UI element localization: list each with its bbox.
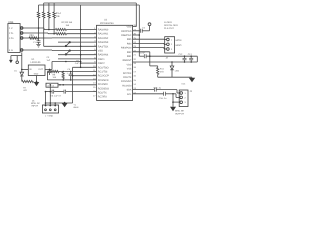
svg-text:1uF: 1uF bbox=[47, 59, 51, 62]
svg-text:RC6/TX: RC6/TX bbox=[98, 92, 107, 95]
svg-text:18: 18 bbox=[133, 66, 136, 69]
svg-text:RC7/RX: RC7/RX bbox=[98, 96, 108, 99]
pin label left RC1/TSI bbox=[98, 71, 108, 74]
wire bottom gnd rail bbox=[45, 102, 73, 104]
label C8 bbox=[75, 60, 80, 66]
pin number right 24 bbox=[133, 41, 136, 44]
svg-text:OSC1: OSC1 bbox=[98, 58, 105, 61]
pin number right 15 bbox=[133, 79, 136, 82]
capacitor C9 bbox=[67, 68, 73, 81]
label C14 bbox=[182, 83, 187, 86]
svg-text:10k: 10k bbox=[56, 15, 61, 18]
svg-text:J3: J3 bbox=[190, 90, 193, 93]
ground regulator bbox=[34, 81, 40, 87]
wire row3 bbox=[58, 41, 97, 43]
resistor R6 bbox=[56, 33, 97, 35]
ground crystal bbox=[62, 102, 68, 107]
wire +5V top rail A bbox=[44, 3, 137, 27]
pin number left 17 bbox=[93, 94, 96, 97]
svg-text:2: 2 bbox=[171, 43, 173, 46]
wire D+ to row2 bbox=[23, 37, 29, 39]
wire J5 pin1 riser bbox=[45, 91, 47, 105]
svg-text:SCL: SCL bbox=[127, 93, 132, 96]
svg-text:OUT: OUT bbox=[38, 68, 43, 71]
svg-text:3 D+: 3 D+ bbox=[9, 37, 15, 40]
svg-text:RA1/AN1: RA1/AN1 bbox=[98, 33, 109, 36]
wire +5V top rail B bbox=[39, 5, 140, 56]
svg-text:RC1/TSI: RC1/TSI bbox=[98, 71, 108, 74]
pin number left 12 bbox=[93, 73, 96, 76]
svg-text:CLK-OUT: CLK-OUT bbox=[164, 27, 175, 30]
pin label left RA0/AN0 bbox=[98, 29, 109, 32]
pin label right SCL bbox=[127, 93, 132, 96]
wire row3R to J2 pin1 bbox=[133, 38, 167, 40]
pin number right 13 bbox=[133, 87, 136, 90]
svg-text:C6 .1uF C7: C6 .1uF C7 bbox=[51, 94, 62, 97]
svg-text:C12: C12 bbox=[179, 53, 184, 56]
pin label right RC4/SDI bbox=[122, 84, 131, 87]
svg-text:RB1: RB1 bbox=[127, 55, 132, 58]
ground shield bbox=[9, 56, 13, 64]
pin number left 3 bbox=[94, 36, 96, 39]
svg-text:RC7/RX: RC7/RX bbox=[123, 72, 132, 75]
pin label left RC3/SCK bbox=[98, 79, 109, 82]
svg-text:RB0/INT: RB0/INT bbox=[123, 59, 132, 62]
svg-text:470: 470 bbox=[160, 71, 165, 74]
pin label right RB2 bbox=[127, 51, 132, 54]
svg-text:1: 1 bbox=[185, 92, 187, 95]
wire row4R to J2 pin2 bbox=[133, 42, 167, 45]
svg-text:L4931-50: L4931-50 bbox=[31, 61, 42, 64]
wire FB1 to IC bbox=[38, 37, 97, 39]
connector J3 bbox=[179, 90, 188, 107]
ground right bbox=[189, 78, 195, 82]
capacitor C13 bbox=[189, 55, 193, 62]
pin number left 6 bbox=[94, 48, 96, 51]
LED D3 bbox=[170, 61, 179, 77]
wire J5 pin3 riser bbox=[54, 102, 56, 105]
pin label left RA4/TCK bbox=[98, 45, 109, 48]
wire row16R bbox=[133, 93, 164, 95]
pin label right VSS bbox=[127, 68, 132, 71]
svg-text:1k5: 1k5 bbox=[66, 24, 70, 27]
pin number right 23 bbox=[133, 45, 136, 48]
svg-text:SDA: SDA bbox=[127, 89, 132, 92]
pin number right 18 bbox=[133, 66, 136, 69]
pin label left RC5/SDO bbox=[98, 87, 109, 90]
wire row15 caps bbox=[46, 90, 97, 94]
wire row11 bbox=[72, 75, 97, 77]
svg-text:19: 19 bbox=[133, 62, 136, 65]
svg-text:1 V: 1 V bbox=[9, 27, 13, 30]
pin number right 14 bbox=[133, 83, 136, 86]
wire row13 crystal bbox=[50, 84, 96, 86]
svg-text:RA5/AN4: RA5/AN4 bbox=[98, 54, 109, 57]
pin number left 5 bbox=[94, 44, 96, 47]
svg-text:RB2: RB2 bbox=[127, 51, 132, 54]
wire row6R to +5 node bbox=[133, 51, 150, 53]
svg-text:J2: J2 bbox=[166, 57, 169, 60]
svg-text:RC2/CCP: RC2/CCP bbox=[98, 75, 109, 78]
J2 pin 1 bbox=[167, 38, 173, 41]
J3 pin 3 bbox=[180, 101, 187, 104]
pin label left RC7/RX bbox=[98, 96, 108, 99]
wire row2R stub bbox=[133, 34, 141, 36]
svg-text:C4: C4 bbox=[142, 26, 146, 29]
pin label right RB1 bbox=[127, 55, 132, 58]
svg-text:PIC16F876A: PIC16F876A bbox=[100, 22, 114, 25]
svg-text:14: 14 bbox=[93, 82, 96, 85]
svg-text:C8: C8 bbox=[76, 60, 80, 63]
svg-text:C1: C1 bbox=[33, 41, 36, 44]
pin number right 26 bbox=[133, 33, 136, 36]
wire +5V W1 bbox=[139, 55, 197, 57]
svg-text:U1: U1 bbox=[32, 58, 36, 61]
connector J2 bbox=[165, 37, 175, 53]
pin number right 20 bbox=[133, 58, 136, 61]
pin label left RA1/AN1 bbox=[98, 33, 109, 36]
IC U2 PIC16F876A bbox=[97, 19, 133, 101]
svg-text:VDD: VDD bbox=[127, 63, 132, 66]
pin number right 25 bbox=[133, 37, 136, 40]
svg-text:IN: IN bbox=[29, 68, 32, 71]
pin number right 19 bbox=[133, 62, 136, 65]
wire row10 bbox=[47, 72, 49, 80]
pin number right 27 bbox=[133, 28, 136, 31]
pin 1 VBUS bbox=[9, 27, 23, 30]
pin label left OSC1 bbox=[98, 58, 105, 61]
J3 pin 1 bbox=[180, 92, 187, 95]
wire row5 GND rail bbox=[23, 49, 96, 52]
svg-text:J4-SER: J4-SER bbox=[164, 21, 172, 24]
svg-text:20: 20 bbox=[133, 58, 136, 61]
svg-text:R8: R8 bbox=[53, 73, 57, 76]
svg-text:RB7/PGD: RB7/PGD bbox=[121, 30, 131, 33]
svg-text:.1uF: .1uF bbox=[75, 62, 80, 65]
svg-text:MISO: MISO bbox=[176, 44, 182, 47]
resistor R11 bbox=[157, 66, 165, 77]
svg-text:USB: USB bbox=[8, 21, 14, 24]
pin number left 2 bbox=[94, 31, 96, 34]
pin label left VSS bbox=[98, 50, 103, 53]
resistor R1 bbox=[37, 5, 39, 38]
resistor R4 bbox=[53, 3, 55, 34]
pin label left RC4/SDI bbox=[98, 83, 108, 86]
J2 pin 3 bbox=[167, 48, 173, 51]
resistor R5 bbox=[56, 28, 97, 30]
label J3 bbox=[175, 90, 193, 115]
svg-text:D1: D1 bbox=[14, 69, 17, 72]
wire row8 left bbox=[80, 62, 97, 64]
svg-text:3: 3 bbox=[185, 101, 187, 104]
capacitor C15 inline bbox=[154, 87, 162, 92]
svg-text:17: 17 bbox=[133, 70, 136, 73]
wire row15R b bbox=[156, 90, 180, 93]
wire row4 bbox=[44, 45, 97, 47]
pin label right RB7/PGD bbox=[121, 30, 131, 33]
label C6 C7 bbox=[51, 94, 62, 97]
wire row9 jog bbox=[73, 67, 97, 69]
pin label right RB5 bbox=[127, 38, 132, 41]
pin number right 22 bbox=[133, 49, 136, 52]
pin number right 28 bbox=[133, 24, 136, 27]
resistor R8 bbox=[50, 70, 97, 79]
svg-text:R2,R3 1k5: R2,R3 1k5 bbox=[62, 21, 73, 24]
J2 pin 2 bbox=[167, 43, 173, 46]
wire W4 to ground bbox=[158, 76, 192, 79]
pin label right RC5/SDO bbox=[121, 80, 131, 83]
pin label right VDD bbox=[127, 26, 132, 29]
pin label left RC0/TSO bbox=[98, 66, 109, 69]
label J5 bbox=[31, 100, 40, 108]
label C13 bbox=[188, 53, 193, 56]
svg-text:VDD: VDD bbox=[127, 26, 132, 29]
svg-text:1: 1 bbox=[171, 38, 173, 41]
svg-text:ATNL SE: ATNL SE bbox=[175, 110, 184, 113]
svg-text:16: 16 bbox=[133, 75, 136, 78]
switch S2 bbox=[65, 50, 70, 55]
pin label right RB6/PGC bbox=[121, 34, 131, 37]
pin number right 12 bbox=[133, 91, 136, 94]
capacitor C12 bbox=[183, 55, 187, 62]
svg-text:21: 21 bbox=[133, 54, 136, 57]
wire shield rail bbox=[11, 55, 22, 57]
capacitor C3 out bbox=[47, 56, 52, 75]
wire row5R to J2 pin3 bbox=[133, 48, 167, 49]
ground J3 bbox=[170, 101, 176, 111]
pin label left RC6/TX bbox=[98, 92, 107, 95]
label R7 value bbox=[23, 86, 27, 92]
connector J1 USB bbox=[8, 21, 20, 53]
ground under C1 bbox=[36, 44, 40, 47]
connector J5 DC jack bbox=[42, 105, 58, 118]
resistor R2 bbox=[43, 3, 45, 46]
wire row8R W2 bbox=[133, 61, 198, 63]
resistor R7 bbox=[22, 80, 34, 82]
pin label left OSC2 bbox=[98, 62, 105, 65]
label C12 bbox=[179, 53, 184, 56]
svg-text:OSC2: OSC2 bbox=[98, 62, 105, 65]
capacitor C4 inline bbox=[140, 52, 147, 59]
svg-text:17: 17 bbox=[93, 94, 96, 97]
svg-text:RB5: RB5 bbox=[127, 38, 132, 41]
wire row16R b bbox=[166, 94, 180, 98]
pin label right RB0/INT bbox=[123, 59, 132, 62]
svg-text:RB6/PGC: RB6/PGC bbox=[121, 34, 131, 37]
J3 pin 2 bbox=[180, 96, 187, 99]
svg-text:RC5/SDO: RC5/SDO bbox=[98, 87, 109, 90]
pin number left 8 bbox=[94, 57, 96, 60]
svg-text:2 D-: 2 D- bbox=[9, 32, 14, 35]
pin label right SDA bbox=[127, 89, 132, 92]
svg-text:C9: C9 bbox=[68, 68, 71, 71]
regulator U1 bbox=[28, 58, 45, 76]
svg-text:VSS: VSS bbox=[127, 68, 132, 71]
svg-text:15: 15 bbox=[93, 86, 96, 89]
capacitor C4 row1R bbox=[140, 26, 149, 33]
svg-text:C15 .1u: C15 .1u bbox=[154, 87, 162, 90]
pin 2 D- bbox=[9, 32, 23, 35]
pin number left 10 bbox=[93, 65, 96, 68]
ferrite bead FB1 bbox=[29, 34, 38, 39]
pin label right RC6/TX bbox=[123, 76, 132, 79]
pin number left 7 bbox=[94, 52, 96, 55]
svg-text:GND: GND bbox=[34, 73, 39, 76]
svg-text:2: 2 bbox=[185, 96, 187, 99]
pin number left 13 bbox=[93, 78, 96, 81]
pin label right RB4 bbox=[127, 42, 132, 45]
svg-text:4MHz: 4MHz bbox=[73, 106, 78, 109]
svg-text:470: 470 bbox=[23, 89, 27, 92]
node row1 pullup bbox=[53, 33, 55, 35]
pin number left 11 bbox=[93, 69, 96, 72]
pin number right 21 bbox=[133, 54, 136, 57]
svg-text:FB1: FB1 bbox=[30, 34, 35, 37]
wire row15R bbox=[133, 89, 155, 91]
svg-text:VSS: VSS bbox=[98, 50, 103, 53]
svg-text:C3: C3 bbox=[47, 56, 51, 59]
pin number right 16 bbox=[133, 75, 136, 78]
pin label left RA5/AN4 bbox=[98, 54, 109, 57]
svg-text:INPUT: INPUT bbox=[32, 105, 39, 108]
svg-text:MOSI: MOSI bbox=[176, 39, 182, 42]
pin 4 GND bbox=[9, 49, 23, 52]
svg-text:RA3/AN3: RA3/AN3 bbox=[98, 41, 109, 44]
wire reg GND bbox=[36, 76, 38, 82]
svg-text:RC3/SCK: RC3/SCK bbox=[98, 79, 109, 82]
svg-text:4 G: 4 G bbox=[9, 49, 13, 52]
pin label left RA3/AN3 bbox=[98, 41, 109, 44]
svg-text:RC0/TSO: RC0/TSO bbox=[98, 66, 109, 69]
pin label left RA2/AN2 bbox=[98, 37, 109, 40]
svg-text:RB4: RB4 bbox=[127, 42, 132, 45]
svg-text:C14: C14 bbox=[182, 83, 187, 86]
resistor R3 bbox=[48, 3, 50, 30]
wire vertical mid bbox=[72, 67, 74, 103]
pin number left 9 bbox=[94, 61, 96, 64]
pin label right VDD bbox=[127, 63, 132, 66]
svg-text:RA4/TCK: RA4/TCK bbox=[98, 45, 109, 48]
svg-text:RC4/SDI: RC4/SDI bbox=[98, 83, 108, 86]
node col1 vbus bbox=[38, 27, 40, 29]
svg-text:R11: R11 bbox=[160, 68, 165, 71]
wire row6 bbox=[58, 54, 97, 56]
label R5 bbox=[62, 21, 73, 27]
LED D1 power bbox=[14, 69, 23, 81]
wire VBUS to row0 bbox=[23, 28, 55, 30]
svg-text:DIGITAL SER: DIGITAL SER bbox=[164, 24, 178, 27]
svg-text:RB3/PGM: RB3/PGM bbox=[121, 47, 131, 50]
resistor R9 vertical bbox=[62, 71, 64, 81]
label R1-R4 value bbox=[56, 12, 62, 18]
svg-text:RC6/TX: RC6/TX bbox=[123, 76, 132, 79]
wire D- to row1 bbox=[23, 32, 55, 35]
wire reg OUT bbox=[45, 61, 81, 70]
svg-text:4.7uF: 4.7uF bbox=[140, 52, 146, 55]
label J2 signals bbox=[176, 39, 182, 47]
svg-text:RA0/AN0: RA0/AN0 bbox=[98, 29, 109, 32]
node row0 pullup bbox=[48, 29, 81, 31]
pin number right 17 bbox=[133, 70, 136, 73]
wire J5 pin2 riser bbox=[50, 84, 52, 105]
svg-text:RC4/SDI: RC4/SDI bbox=[122, 84, 131, 87]
pin number left 4 bbox=[94, 40, 96, 43]
svg-text:OUTPUT: OUTPUT bbox=[175, 112, 184, 115]
crystal Y1 box bbox=[46, 83, 58, 87]
svg-text:RA2/AN2: RA2/AN2 bbox=[98, 37, 109, 40]
svg-text:Y1: Y1 bbox=[74, 103, 77, 106]
svg-text:3: 3 bbox=[171, 48, 173, 51]
svg-text:LED: LED bbox=[175, 69, 180, 72]
pin label right RB3/PGM bbox=[121, 47, 131, 50]
node feed row6 bbox=[80, 54, 82, 56]
wire row7 bbox=[58, 58, 97, 60]
pin number left 14 bbox=[93, 82, 96, 85]
svg-text:100: 100 bbox=[53, 76, 57, 79]
node feed row4 bbox=[80, 46, 82, 48]
svg-text:RC5/SDO: RC5/SDO bbox=[121, 80, 131, 83]
switch S1 bbox=[65, 42, 70, 47]
wire row1R stub bbox=[133, 30, 141, 32]
svg-text:15: 15 bbox=[133, 79, 136, 82]
capacitor C16 inline bbox=[159, 92, 167, 100]
capacitor C1 bbox=[33, 38, 40, 44]
wire vertical feed to rows bbox=[80, 5, 82, 67]
wire W3 bbox=[149, 52, 158, 66]
wire to reg IN bbox=[21, 69, 28, 71]
label Y1 bbox=[73, 103, 78, 109]
wire +5 vertical bbox=[21, 52, 23, 72]
svg-text:1 + GND: 1 + GND bbox=[45, 115, 54, 118]
power tap circle bbox=[16, 56, 19, 64]
pin label right RC7/RX bbox=[123, 72, 132, 75]
pin number left 15 bbox=[93, 86, 96, 89]
wire row12 bbox=[47, 79, 96, 81]
svg-text:+: + bbox=[67, 72, 69, 75]
pin number left 16 bbox=[93, 90, 96, 93]
pin label left RC2/CCP bbox=[98, 75, 109, 78]
svg-text:R1-4: R1-4 bbox=[56, 12, 62, 15]
label J2 bbox=[164, 21, 178, 60]
svg-text:C16 .1u: C16 .1u bbox=[159, 97, 167, 100]
pin number left 1 bbox=[94, 27, 96, 30]
power flag +5V row1R bbox=[148, 23, 151, 31]
pin 3 D+ bbox=[9, 37, 23, 40]
node cap C1 tap bbox=[38, 37, 40, 39]
wire to J3 pin3 bbox=[172, 93, 180, 102]
svg-text:14: 14 bbox=[133, 83, 136, 86]
wire W1-W2 right tie bbox=[196, 56, 198, 62]
